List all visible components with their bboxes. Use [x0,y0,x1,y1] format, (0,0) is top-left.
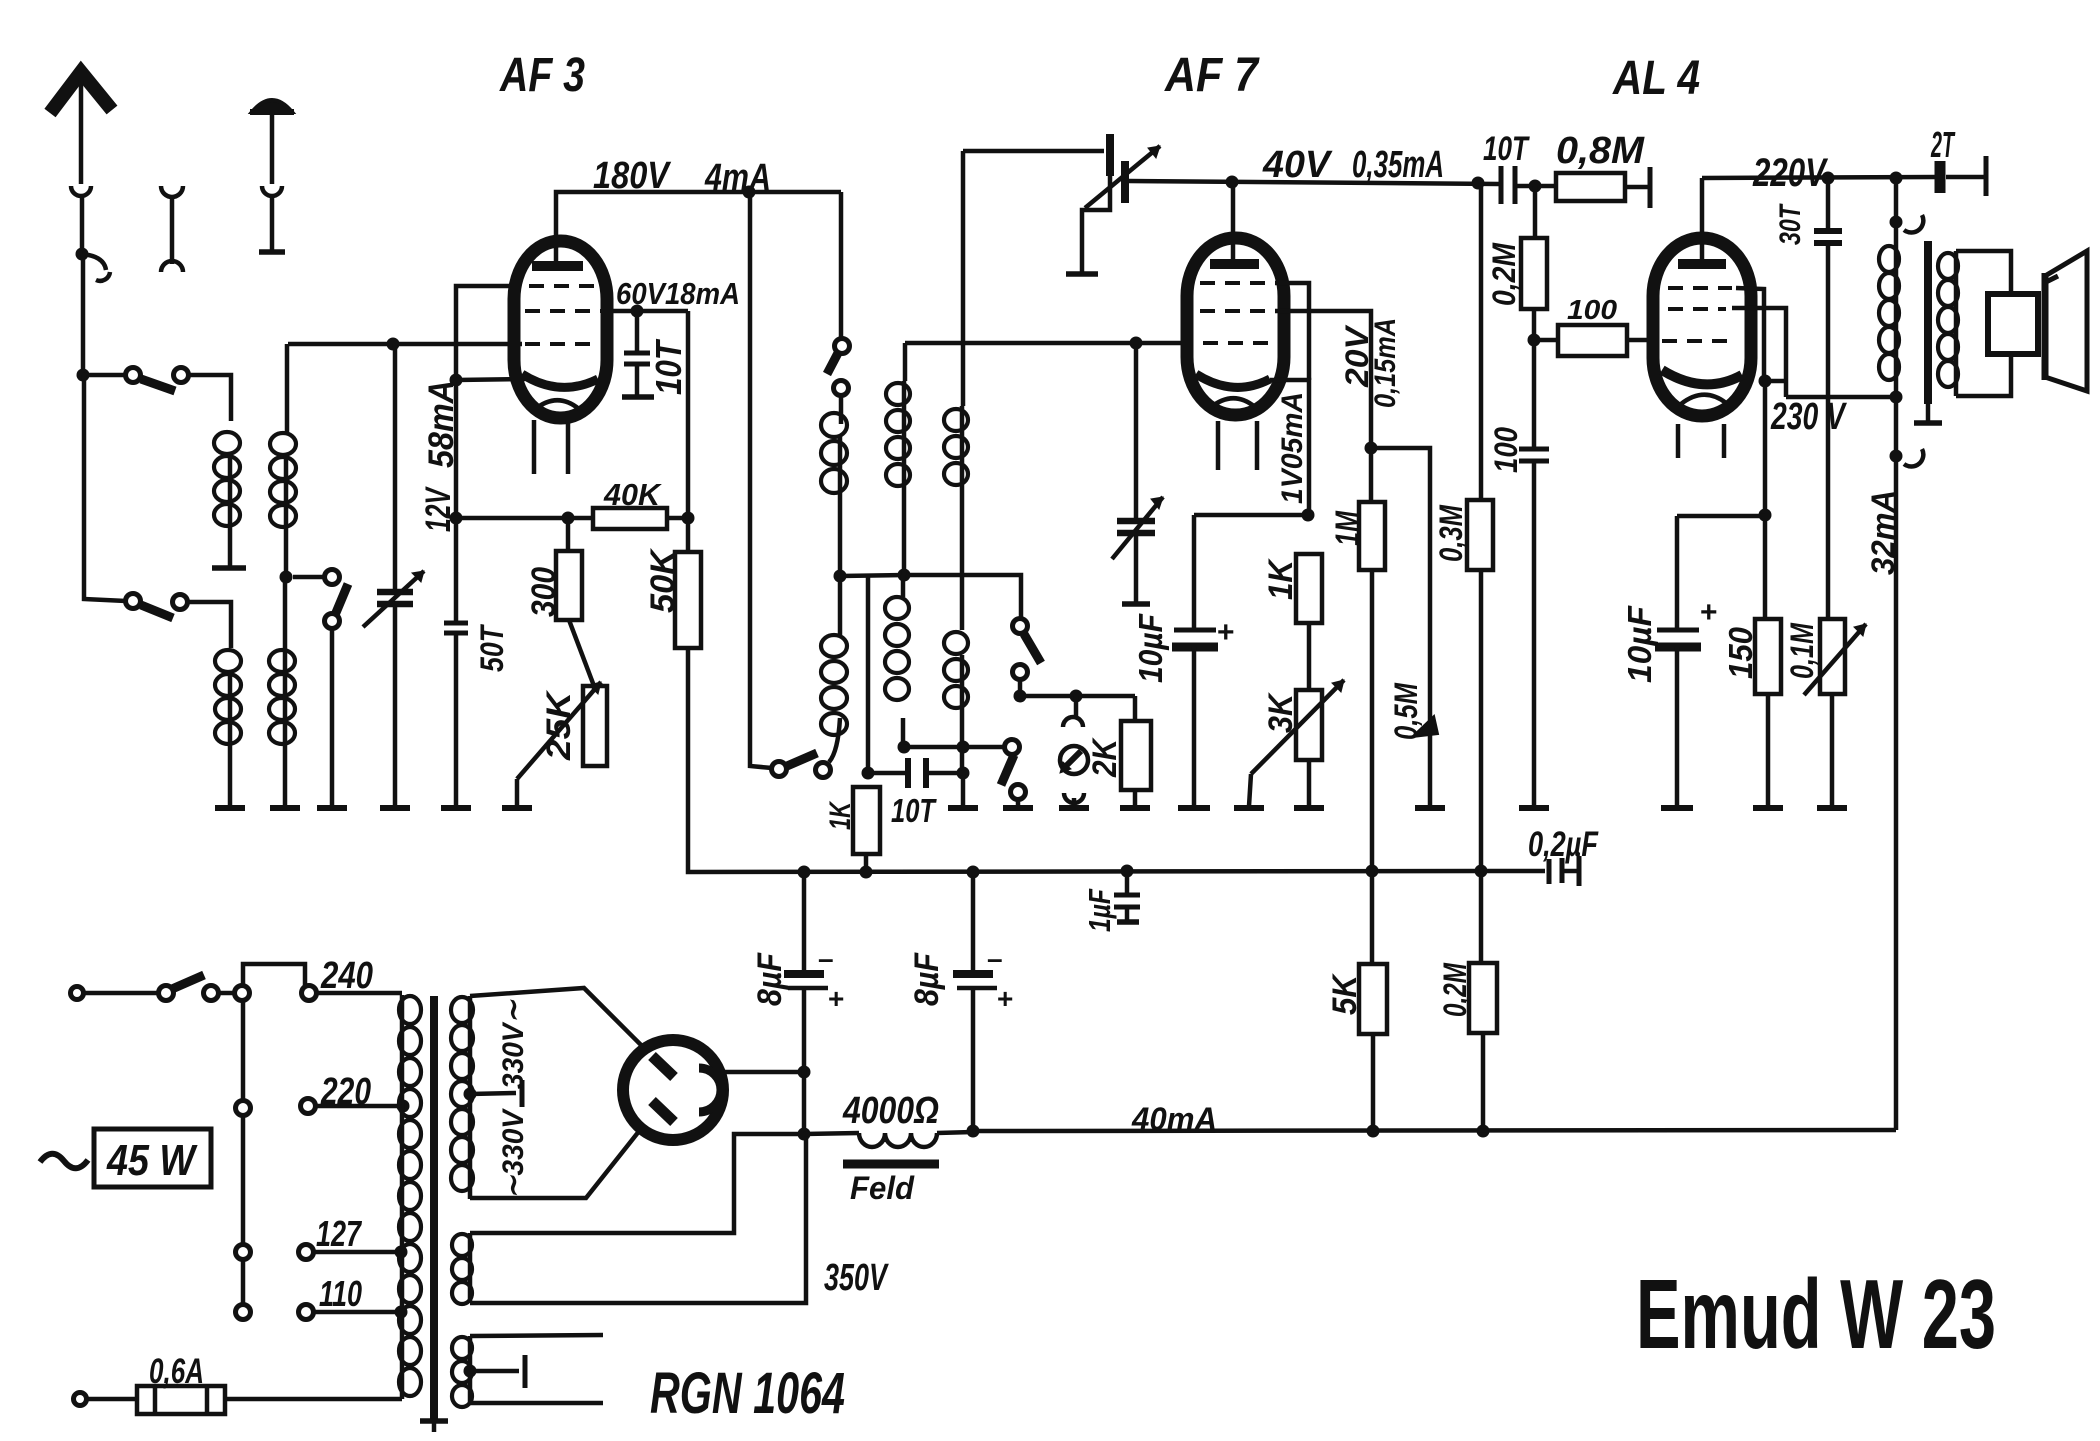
wiper arrow 3K [1251,680,1344,774]
wire antenna down 3 [84,375,126,601]
tube RGN1064 envelope [623,1040,723,1140]
choke core bar [843,1160,939,1169]
node AF7 anode [1226,176,1239,189]
wire AL4 cathode down [1763,381,1768,619]
ground 3K wiper [1234,805,1264,811]
heater arc AF7 [1210,398,1255,408]
svg-text:+: + [1700,596,1718,629]
resistor 0.8M [1556,173,1625,201]
wire primary bottom to fuse [225,1397,402,1402]
rectifier anode bar 1 [652,1056,674,1077]
wire S1 to coil L1 [188,375,231,421]
node screen bypass [631,305,644,318]
wire AL4 aux grid [1736,288,1764,381]
ground IF B2 [948,805,978,811]
ground 10uF AL4 [1661,805,1693,811]
inductor output primary [1879,246,1899,380]
capacitor 10uF AL4 [1677,514,1765,519]
mains switch lever [172,975,204,989]
svg-text:300: 300 [525,567,563,617]
svg-text:40V: 40V [1262,144,1333,186]
resistor 0.3M [1479,183,1484,500]
node pickup [1070,690,1083,703]
wire B bottom to S7 [963,745,1004,750]
terminal bar center tap [520,1080,525,1107]
wire 10T to 0.8M [1515,184,1556,189]
node HV center tap [464,1088,477,1101]
ground 50T [441,805,471,811]
selector contact 220 [236,1101,251,1116]
svg-text:45 W: 45 W [106,1136,198,1185]
mains switch contact right [204,986,219,1001]
node 1K top [862,767,875,780]
node L3 L4 junction [280,571,293,584]
svg-text:10T: 10T [648,338,689,395]
svg-text:Feld: Feld [850,1170,915,1206]
wire AL4 screen out [1732,308,1786,397]
transformer HV secondary [468,996,473,1199]
svg-text:40K: 40K [603,477,663,512]
terminal bar C2 [1122,601,1150,607]
antenna symbol [50,72,112,113]
wire 12V rail [456,516,593,521]
svg-text:32mA: 32mA [1865,490,1901,575]
switch S6 contact bottom [1013,665,1028,680]
capacitor 50T [444,621,468,626]
svg-text:10µF: 10µF [1132,613,1169,683]
ground L4 [270,805,300,811]
node 100 left [1528,334,1541,347]
transformer filament winding rectifier [468,1336,473,1403]
svg-text:4mA: 4mA [704,157,771,199]
node 4mA [743,186,756,199]
plug socket earth [262,186,282,196]
node 40K left [562,512,575,525]
speaker cone [2045,251,2087,391]
svg-text:127: 127 [316,1213,362,1254]
transformer filament winding AL4 [468,1233,473,1303]
wire fuse to terminal [87,1397,137,1402]
rectifier cathode arc [699,1068,721,1112]
rectifier anode bar 2 [652,1101,674,1122]
svg-text:0,3M: 0,3M [1433,504,1469,562]
wire S7 ground [1016,800,1021,806]
resistor 1K IF [853,787,880,854]
heater arc AF3 [534,400,579,410]
plug socket antenna [71,186,91,196]
svg-text:0,5M: 0,5M [1388,682,1424,740]
svg-text:10T: 10T [891,792,937,829]
ground bar trimmer [1066,271,1098,277]
wire rectifier output [723,1070,804,1075]
power rating box 45W [94,1129,211,1187]
mains switch contact left [159,986,174,1001]
wire switch to selector [218,991,235,996]
mains tilde [40,1154,88,1169]
svg-text:110: 110 [319,1273,362,1314]
node tuning cap junction [387,338,400,351]
node antenna switch row1 [77,369,90,382]
svg-text:330V∼: 330V∼ [497,999,530,1089]
node 1uF [1121,865,1134,878]
svg-text:1K: 1K [824,800,857,830]
wire link to S6 [904,575,1021,618]
node 220V primary [1890,172,1903,185]
wire 300 to 25K [569,620,594,686]
wire AF7 screen out [1275,283,1309,380]
ground 25K [502,805,532,811]
node IF B2 bottom [957,741,970,754]
switch S3 lever [335,584,348,615]
resistor 1M [1359,502,1385,570]
wire rect filament top [470,1335,603,1336]
ground 2K [1120,805,1150,811]
svg-text:8µF: 8µF [908,952,946,1006]
node 5K bottom [1367,1125,1380,1138]
switch S3 contact bottom [325,614,340,629]
switch S2 contact left [126,594,141,609]
selector column [241,1000,246,1305]
core ground [420,1418,448,1424]
svg-text:2T: 2T [1930,124,1955,165]
svg-text:40mA: 40mA [1131,1101,1217,1137]
wire S5 to 4mA line [750,192,772,768]
wire output primary line [1894,178,1899,1130]
inductor L2 antenna coil B [215,650,241,744]
inductor IF B2 lower [944,632,968,708]
ground 150 [1753,805,1783,811]
stub hook antenna tap [82,254,106,270]
resistor 0.2M grid [1533,186,1538,238]
switch S2 contact right [173,595,188,610]
svg-text:0,35mA: 0,35mA [1352,144,1444,186]
node 12V [450,512,463,525]
svg-text:–: – [818,943,834,974]
inductor L4 secondary B [269,650,295,744]
terminal bar earth [259,249,285,255]
svg-text:1V05mA: 1V05mA [1276,392,1309,504]
wire 1K to 3K [1307,623,1312,690]
node primary top hook [1890,216,1903,229]
capacitor 8uF first [802,872,807,974]
wire IF A to B link [840,575,904,576]
node cathode 150 [1759,509,1772,522]
ground 100 [1519,805,1549,811]
wire S6 down [1018,680,1023,696]
svg-text:30T: 30T [1774,203,1807,245]
node 30T junction [1822,172,1835,185]
switch S5 contact right [816,763,831,778]
grid rows AF7 [1200,281,1271,285]
node 0.3M rail [1475,865,1488,878]
tap 127 contact [299,1245,314,1260]
node antenna tap [76,248,89,261]
svg-text:25K: 25K [540,689,578,761]
wire antenna stem [79,80,84,184]
selector contact 110 [236,1305,251,1320]
node 20V divider [1365,442,1378,455]
wire tap 240 [316,991,402,996]
wire S3 to ground [330,629,335,806]
svg-text:1µF: 1µF [1082,888,1117,932]
trimmer feed wire [963,149,1104,154]
node B+ choke [798,1128,811,1141]
capacitor 10T AF3 [635,311,640,351]
svg-text:AL 4: AL 4 [1612,52,1700,105]
svg-text:8µF: 8µF [751,952,789,1006]
wire 40V rail [1129,181,1499,184]
svg-text:∼330V: ∼330V [497,1107,530,1199]
svg-text:0,6A: 0,6A [149,1352,204,1391]
wiper arrow 0.1M [1804,624,1866,695]
svg-text:10µF: 10µF [1621,605,1658,683]
wire 4mA to switch S4 [839,192,844,339]
transformer primary winding [400,995,405,1399]
node IF B top [898,569,911,582]
resistor 5K [1370,871,1375,964]
tube legs AL4 [1676,424,1681,458]
pickup jack [1074,696,1079,718]
svg-text:100: 100 [1567,294,1617,325]
tap 110 contact [299,1305,314,1320]
potentiometer 25K [583,686,607,766]
wire B1 to B2 [904,745,963,750]
anode top cap AF3 [532,261,583,271]
node rectifier output [798,1066,811,1079]
switch S6 contact top [1013,619,1028,634]
wire filament bottom 350V [470,1134,806,1303]
capacitor 10T series [868,771,908,776]
node AL4 cathode [1759,375,1772,388]
wire tap 110 [313,1310,398,1315]
wire antenna down 2 [81,254,86,375]
svg-text:0,2µF: 0,2µF [1528,825,1599,864]
wire screen feed AF3 [456,286,520,623]
wire screen AF3 output [607,309,688,314]
resistor 150 [1755,619,1781,694]
switch S1 contact right [174,368,189,383]
ground tuning cap [380,805,410,811]
inductor L3 secondary A [285,344,290,432]
node 1K bottom [860,866,873,879]
wire 3K wiper ground [1249,774,1251,806]
wire 0.5M feed [1371,448,1430,806]
voltage selector jumper [243,964,305,986]
wire HV bottom to rectifier [470,1130,640,1198]
svg-text:100: 100 [1488,427,1524,473]
speaker voice coil box [1988,294,2038,354]
resistor 300 [566,518,571,551]
capacitor 10uF AF7 [1194,513,1308,518]
wire HV top to rectifier [470,988,642,1046]
svg-text:0,8M: 0,8M [1556,130,1645,172]
svg-text:150: 150 [1722,626,1759,679]
cathode arc AF7 [1196,374,1270,387]
fuse 0.6A [137,1386,225,1414]
wire 3K bottom [1307,760,1312,806]
tube legs AF3 [532,420,537,474]
wire S6 to 2K [1020,694,1135,699]
svg-text:2K: 2K [1086,737,1124,778]
wire 0.2M to 100 [1532,309,1537,340]
svg-text:RGN 1064: RGN 1064 [650,1361,845,1426]
svg-text:Emud W 23: Emud W 23 [1636,1259,1996,1369]
node 0.2M top [1529,180,1542,193]
resistor 1K AF7 [1296,554,1322,623]
ground 0.1M [1817,805,1847,811]
variable capacitor tuning C1 [393,344,398,590]
wire to band switch S1 [83,373,126,378]
terminal bar L1 [212,565,246,571]
wire 1K bottom [864,854,869,872]
node S6 out [1014,690,1027,703]
capacitor 0.2uF [1481,869,1545,874]
ground pickup [1059,805,1089,811]
svg-text:1M: 1M [1329,511,1367,547]
earth terminal symbol [252,100,292,112]
wire 180V anode feed [556,192,841,262]
svg-text:58mA: 58mA [422,380,461,468]
node 0.2M bottom [1477,1125,1490,1138]
switch S4 contact bottom [834,381,849,396]
resistor 0.2M bottom [1479,871,1484,963]
wire earth down [270,196,275,250]
svg-text:0,15mA: 0,15mA [1369,318,1402,408]
capacitor 1uF [1125,871,1130,893]
wire 40mA rail [973,1130,1896,1131]
wire cathode AF3 [456,379,525,380]
svg-text:0,2M: 0,2M [1437,962,1473,1017]
capacitor 10T coupling [1499,166,1504,204]
wire antenna down [80,196,85,254]
wire 1M down [1370,570,1375,871]
svg-text:0,2M: 0,2M [1486,242,1522,306]
resistor 50K [686,311,691,552]
wiper 0.5M [1412,716,1438,737]
inductor IF A2 [821,635,847,735]
ground S3 [317,805,347,811]
svg-text:3K: 3K [1262,692,1300,733]
wiper arrow 25K [517,682,601,779]
svg-text:230 V: 230 V [1770,396,1847,438]
node IF A mid [834,570,847,583]
node 32mA hook [1890,450,1903,463]
svg-text:+: + [828,983,844,1014]
cathode arc AF3 [522,374,598,387]
wire tap 220 [315,1104,401,1109]
tube legs AF7 [1216,421,1221,470]
wire AF7 grid bus [905,341,1193,346]
wire rect filament bottom [470,1401,603,1406]
switch S3 wave contact top [325,570,340,585]
resistor 2K [1133,696,1138,721]
svg-text:–: – [987,943,1003,974]
wire mains to switch [84,991,159,996]
wire 230V jog [1765,379,1786,384]
node IF B1 bottom [898,741,911,754]
wire grid bus AF3 [288,342,522,347]
svg-text:0,1M: 0,1M [1784,622,1820,679]
mains terminal L [71,987,84,1000]
connector link pin [161,186,183,197]
wire tap 127 [313,1250,398,1255]
switch S5 lever [787,753,817,766]
selector contact 127 [236,1245,251,1260]
svg-text:+: + [1217,616,1235,649]
svg-text:AF 3: AF 3 [499,49,585,102]
ground S7 [1003,805,1033,811]
svg-text:5K: 5K [1326,973,1364,1015]
svg-text:50K: 50K [644,548,682,613]
wire L1 bottom [228,453,233,568]
svg-text:180V: 180V [593,155,671,197]
node primary bottom [1890,391,1903,404]
wire secondary bottom [1956,354,2011,396]
svg-text:10T: 10T [1483,130,1530,168]
wire B2 ground [961,773,966,806]
capacitor 100 [1532,340,1537,447]
transformer core [430,996,438,1419]
svg-text:50T: 50T [474,624,510,672]
grid rows AF3 [529,284,600,288]
svg-text:12V: 12V [419,486,458,532]
svg-text:+: + [997,983,1013,1014]
speaker tick [2046,276,2058,282]
svg-text:1K: 1K [1262,558,1300,600]
ground 3K [1294,805,1324,811]
switch S1 lever [141,379,175,391]
mains terminal N [74,1393,87,1406]
wire 40K right [667,516,688,521]
wire AL4 top cap [1700,178,1705,264]
potentiometer 3K [1296,690,1322,760]
wire secondary top [1956,251,2011,294]
anode top cap AL4 [1678,259,1726,269]
terminal bar filament tap [523,1355,528,1388]
tube AF7 envelope [1187,238,1284,415]
wire center tap [470,1093,516,1094]
svg-text:220: 220 [320,1071,371,1113]
resistor 40K [593,508,667,529]
wire junction to wave switch [293,575,325,580]
wire filament top [470,1134,804,1233]
inductor L1 antenna coil A [214,432,240,526]
node cathode AF3 [450,374,463,387]
selector plug top [235,986,250,1001]
transformer core output [1924,241,1932,404]
inductor IF B2 upper [961,151,966,406]
wire 220V rail [1702,177,1937,178]
grid rows AL4 [1668,286,1732,290]
inductor osc primary [903,343,908,381]
field coil choke 4000 [804,1133,859,1134]
svg-text:220V: 220V [1752,151,1828,195]
node 1M rail [1366,865,1379,878]
terminal bar 0.8M [1648,167,1653,208]
variable capacitor C2 [1134,343,1139,519]
inductor IF A1 [839,396,844,424]
wire 0.3M down [1479,570,1484,871]
node 40K right [682,512,695,525]
anode top cap AF7 [1210,259,1259,269]
potentiometer 0.1M tone [1826,243,1831,619]
wire AF7 cathode out [1270,380,1309,515]
switch S6 lever [1024,634,1041,663]
svg-text:350V: 350V [824,1257,889,1299]
capacitor 2T [1935,161,1946,193]
ground 10uF AF7 [1178,805,1210,811]
switch S4 contact top [835,339,850,354]
